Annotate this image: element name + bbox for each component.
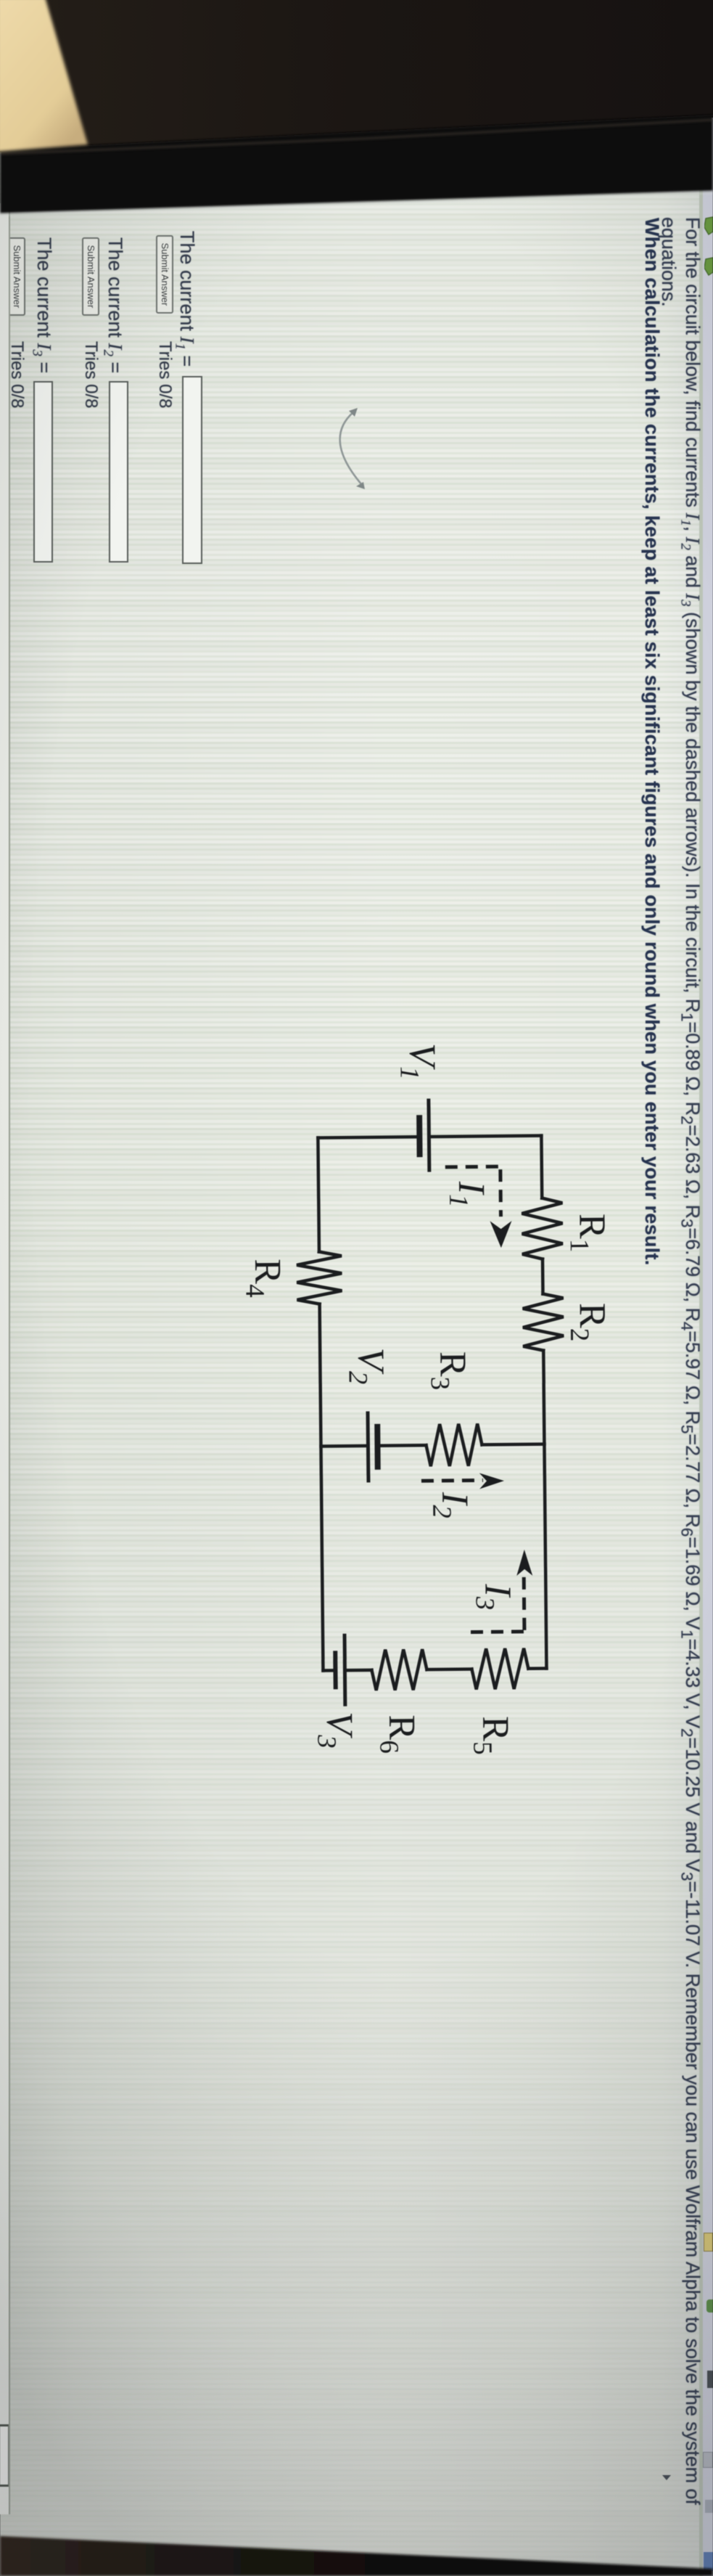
wire left rail lower (below V1) <box>318 1137 417 1137</box>
resistor R2 <box>522 1293 564 1351</box>
wire right rail between R5 and R6 <box>426 1667 471 1671</box>
bottom scrollbar strip <box>0 203 10 2514</box>
arrowhead I3 (points left) <box>516 1550 532 1576</box>
current I3 dashed path <box>470 1576 524 1632</box>
dark room above bezel <box>0 0 713 152</box>
wire top rail mid segment <box>541 1259 545 1294</box>
resistor R5 <box>471 1648 529 1690</box>
wire bottom rail right segment <box>320 1304 323 1671</box>
wire top rail left segment <box>540 1136 543 1198</box>
answer block 1 <box>176 231 198 367</box>
battery V3 long plate <box>343 1635 347 1704</box>
wire right rail top corner to R5 <box>528 1667 546 1670</box>
wire bottom rail left segment <box>318 1138 319 1252</box>
current I1 dashed path <box>445 1166 503 1217</box>
tiny toolbar icon fragments at far right of top strip <box>704 2233 713 2252</box>
battery V1 short plate <box>416 1118 422 1154</box>
resistor R4 <box>297 1251 342 1304</box>
battery V2 long plate <box>366 1413 371 1481</box>
problem text <box>677 217 704 2505</box>
resistor R6 <box>371 1649 427 1690</box>
answer block 3 <box>33 237 55 373</box>
screen inner glow line <box>0 192 713 215</box>
wire middle branch between R3 and V2 <box>379 1444 426 1447</box>
wire right rail bottom corner <box>323 1669 334 1672</box>
wire middle branch lower (below V2) <box>321 1444 366 1448</box>
resistor R1 <box>522 1198 563 1259</box>
wire middle branch upper (to R3) <box>482 1442 544 1446</box>
arrowhead I2 (points up) <box>479 1473 504 1489</box>
answer block 2 <box>104 237 126 373</box>
battery V3 short plate <box>333 1653 337 1687</box>
top toolbar strip <box>703 0 713 2576</box>
bezel chamfer highlight <box>0 120 713 154</box>
stray curved pen annotation <box>314 399 372 501</box>
CIRCUIT DIAGRAM <box>231 1014 644 1802</box>
bottom bezel <box>0 2536 713 2576</box>
small expand arrow after paragraph <box>662 2475 671 2480</box>
wire right rail between R6 and V3 <box>346 1669 371 1672</box>
resistor R3 <box>426 1423 482 1466</box>
current I2 dashed path <box>421 1479 483 1483</box>
monitor top bezel <box>0 115 713 213</box>
green nav arrow fragments <box>704 213 713 285</box>
wire left rail upper (above V1) <box>430 1136 541 1137</box>
arrowhead I1 (points right) <box>490 1221 512 1248</box>
battery V2 short plate <box>374 1427 381 1467</box>
desk (beige wedge) <box>0 0 88 152</box>
wire top rail right segment <box>543 1351 546 1669</box>
battery V1 long plate <box>426 1100 431 1170</box>
